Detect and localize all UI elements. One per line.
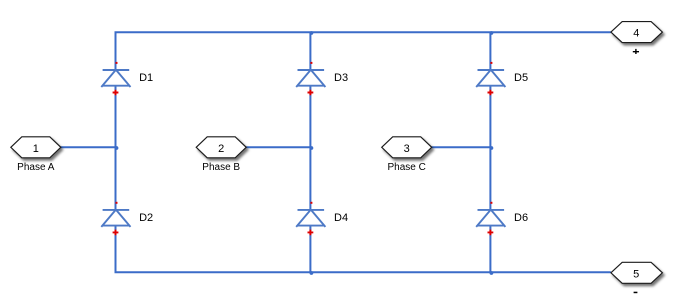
diode D1 bbox=[101, 62, 153, 95]
wire: phase C vertical upper (top rail to D5) bbox=[489, 32, 491, 70]
port 4 (DC + output) bbox=[611, 22, 663, 54]
diode D2 bbox=[101, 202, 153, 235]
diode D5 bbox=[476, 62, 528, 95]
wire: phase B vertical lower (D4 anode to bottom rail) bbox=[309, 226, 311, 273]
svg-text:D3: D3 bbox=[334, 72, 348, 84]
svg-text:D1: D1 bbox=[139, 72, 153, 84]
junction: node C bbox=[490, 146, 494, 150]
wire: port 3 to phase C node bbox=[432, 146, 491, 148]
svg-text:Phase B: Phase B bbox=[202, 162, 240, 173]
wire: phase B vertical upper (top rail to D3) bbox=[309, 32, 311, 70]
wire: port 2 to phase B node bbox=[246, 146, 310, 148]
svg-text:D5: D5 bbox=[514, 72, 528, 84]
port 1 (Phase A input) bbox=[11, 137, 61, 173]
junction: phase B / top rail bbox=[310, 31, 314, 35]
junction: node B bbox=[310, 146, 314, 150]
wire: phase C vertical lower (D6 anode to bottom rail) bbox=[489, 226, 491, 273]
svg-text:5: 5 bbox=[633, 268, 639, 280]
svg-text:D2: D2 bbox=[139, 212, 153, 224]
svg-text:2: 2 bbox=[218, 143, 224, 155]
svg-text:D6: D6 bbox=[514, 212, 528, 224]
port 3 (Phase C input) bbox=[382, 137, 432, 173]
junction: node A bbox=[115, 146, 119, 150]
junction: phase B / bottom rail bbox=[310, 271, 314, 275]
wire: phase A vertical segment (D1 anode to D2 cathode) bbox=[115, 86, 117, 210]
svg-text:1: 1 bbox=[33, 143, 39, 155]
port 2 (Phase B input) bbox=[196, 137, 246, 173]
wire: phase C vertical middle (D5 anode to D6 cathode) bbox=[489, 86, 491, 210]
junction: phase C / bottom rail bbox=[490, 271, 494, 275]
diode D6 bbox=[476, 202, 528, 235]
wire: bottom (-) rail from phase A branch to port 5 bbox=[116, 226, 611, 273]
svg-text:Phase C: Phase C bbox=[388, 162, 426, 173]
wire: top (+) rail from phase A branch to port 4 bbox=[116, 32, 611, 70]
junction: phase C / top rail bbox=[490, 31, 494, 35]
wire: port 1 to phase A node bbox=[61, 146, 116, 148]
wire: phase B vertical middle (D3 anode to D4 cathode) bbox=[309, 86, 311, 210]
diode D3 bbox=[296, 62, 348, 95]
svg-text:Phase A: Phase A bbox=[17, 162, 55, 173]
svg-text:4: 4 bbox=[633, 28, 639, 40]
diode D4 bbox=[296, 202, 348, 235]
svg-text:3: 3 bbox=[404, 143, 410, 155]
svg-text:D4: D4 bbox=[334, 212, 348, 224]
port 5 (DC - output) bbox=[611, 262, 663, 293]
